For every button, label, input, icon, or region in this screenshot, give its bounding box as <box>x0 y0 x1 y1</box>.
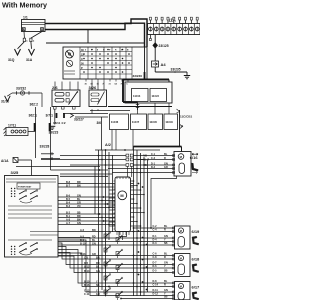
svg-text:SB: SB <box>96 284 100 287</box>
svg-text:POWER SEAT: POWER SEAT <box>18 186 32 189</box>
svg-text:B-7: B-7 <box>66 184 71 187</box>
svg-text:C-11: C-11 <box>84 293 90 296</box>
svg-text:17/11: 17/11 <box>8 124 16 128</box>
svg-text:33/227: 33/227 <box>74 118 84 122</box>
svg-text:BL: BL <box>164 153 168 156</box>
svg-text:D-3: D-3 <box>153 242 158 245</box>
svg-text:3/6: 3/6 <box>97 121 102 125</box>
svg-text:11C/9: 11C/9 <box>165 120 173 124</box>
svg-text:A/2: A/2 <box>105 143 111 147</box>
svg-text:11C/8: 11C/8 <box>149 120 157 124</box>
svg-text:6/19: 6/19 <box>192 229 201 234</box>
svg-text:A/1A: A/1A <box>1 159 9 163</box>
svg-text:R: R <box>164 284 166 287</box>
svg-text:18/11 4:2: 18/11 4:2 <box>53 121 66 125</box>
svg-text:GN: GN <box>92 242 96 245</box>
svg-text:VO: VO <box>77 205 81 208</box>
svg-text:11C/4: 11C/4 <box>133 94 141 98</box>
svg-text:BL: BL <box>96 265 100 268</box>
svg-text:R: R <box>164 157 166 160</box>
svg-text:33/232: 33/232 <box>16 87 26 91</box>
svg-text:M: M <box>180 229 182 233</box>
svg-text:With Memory: With Memory <box>2 1 47 10</box>
svg-text:M: M <box>180 256 182 260</box>
svg-text:3/26: 3/26 <box>89 85 98 90</box>
svg-text:3/25: 3/25 <box>11 170 20 175</box>
svg-text:33/223: 33/223 <box>49 131 59 135</box>
svg-text:11C/6: 11C/6 <box>111 120 119 124</box>
svg-text:C-4: C-4 <box>153 229 158 232</box>
svg-text:D-5: D-5 <box>153 270 158 273</box>
svg-text:A-6: A-6 <box>80 229 85 232</box>
svg-text:6/18: 6/18 <box>192 257 201 262</box>
svg-text:A4: A4 <box>161 62 167 67</box>
svg-text:GN: GN <box>96 270 100 273</box>
svg-text:B-3: B-3 <box>66 205 71 208</box>
svg-text:11C/7: 11C/7 <box>132 120 140 124</box>
svg-text:GR: GR <box>96 293 100 296</box>
svg-text:11A: 11A <box>168 18 177 23</box>
svg-text:D-12: D-12 <box>153 293 159 296</box>
svg-text:1/1: 1/1 <box>23 16 28 20</box>
svg-text:B-16: B-16 <box>84 284 90 287</box>
svg-text:R: R <box>164 256 166 259</box>
svg-text:33/235: 33/235 <box>171 68 181 72</box>
svg-text:GR: GR <box>164 166 168 169</box>
svg-text:B-10: B-10 <box>80 242 86 245</box>
svg-text:SB: SB <box>164 270 168 273</box>
svg-text:C-1: C-1 <box>151 153 156 156</box>
svg-text:C-8: C-8 <box>153 256 158 259</box>
svg-text:362:2: 362:2 <box>30 103 39 107</box>
svg-text:R: R <box>164 229 166 232</box>
svg-text:11C/CB1: 11C/CB1 <box>180 115 193 119</box>
svg-text:33/228: 33/228 <box>40 145 50 149</box>
svg-text:B-12: B-12 <box>84 265 90 268</box>
svg-text:M: M <box>180 284 182 288</box>
svg-text:3/7:1: 3/7:1 <box>46 114 54 118</box>
svg-text:6/16: 6/16 <box>190 155 199 160</box>
svg-text:M: M <box>120 193 123 198</box>
svg-text:GN: GN <box>77 222 81 225</box>
svg-text:B-14: B-14 <box>84 270 90 273</box>
svg-text:BN: BN <box>92 229 96 232</box>
svg-text:33/236: 33/236 <box>133 74 143 78</box>
svg-text:C-14: C-14 <box>153 284 159 287</box>
svg-text:SB: SB <box>164 242 168 245</box>
svg-text:31/10: 31/10 <box>1 100 9 104</box>
svg-text:31Q: 31Q <box>8 58 15 62</box>
svg-text:23/125: 23/125 <box>159 44 169 48</box>
svg-text:A-7: A-7 <box>66 222 71 225</box>
svg-text:6/17: 6/17 <box>192 285 201 290</box>
svg-text:BN: BN <box>77 184 81 187</box>
svg-text:BN: BN <box>96 256 100 259</box>
svg-text:SB: SB <box>164 296 168 299</box>
svg-text:C-3: C-3 <box>151 157 156 160</box>
svg-text:D-2: D-2 <box>151 166 156 169</box>
svg-text:11C/3: 11C/3 <box>152 94 160 98</box>
svg-text:31A: 31A <box>26 58 33 62</box>
svg-text:D-6: D-6 <box>153 265 158 268</box>
